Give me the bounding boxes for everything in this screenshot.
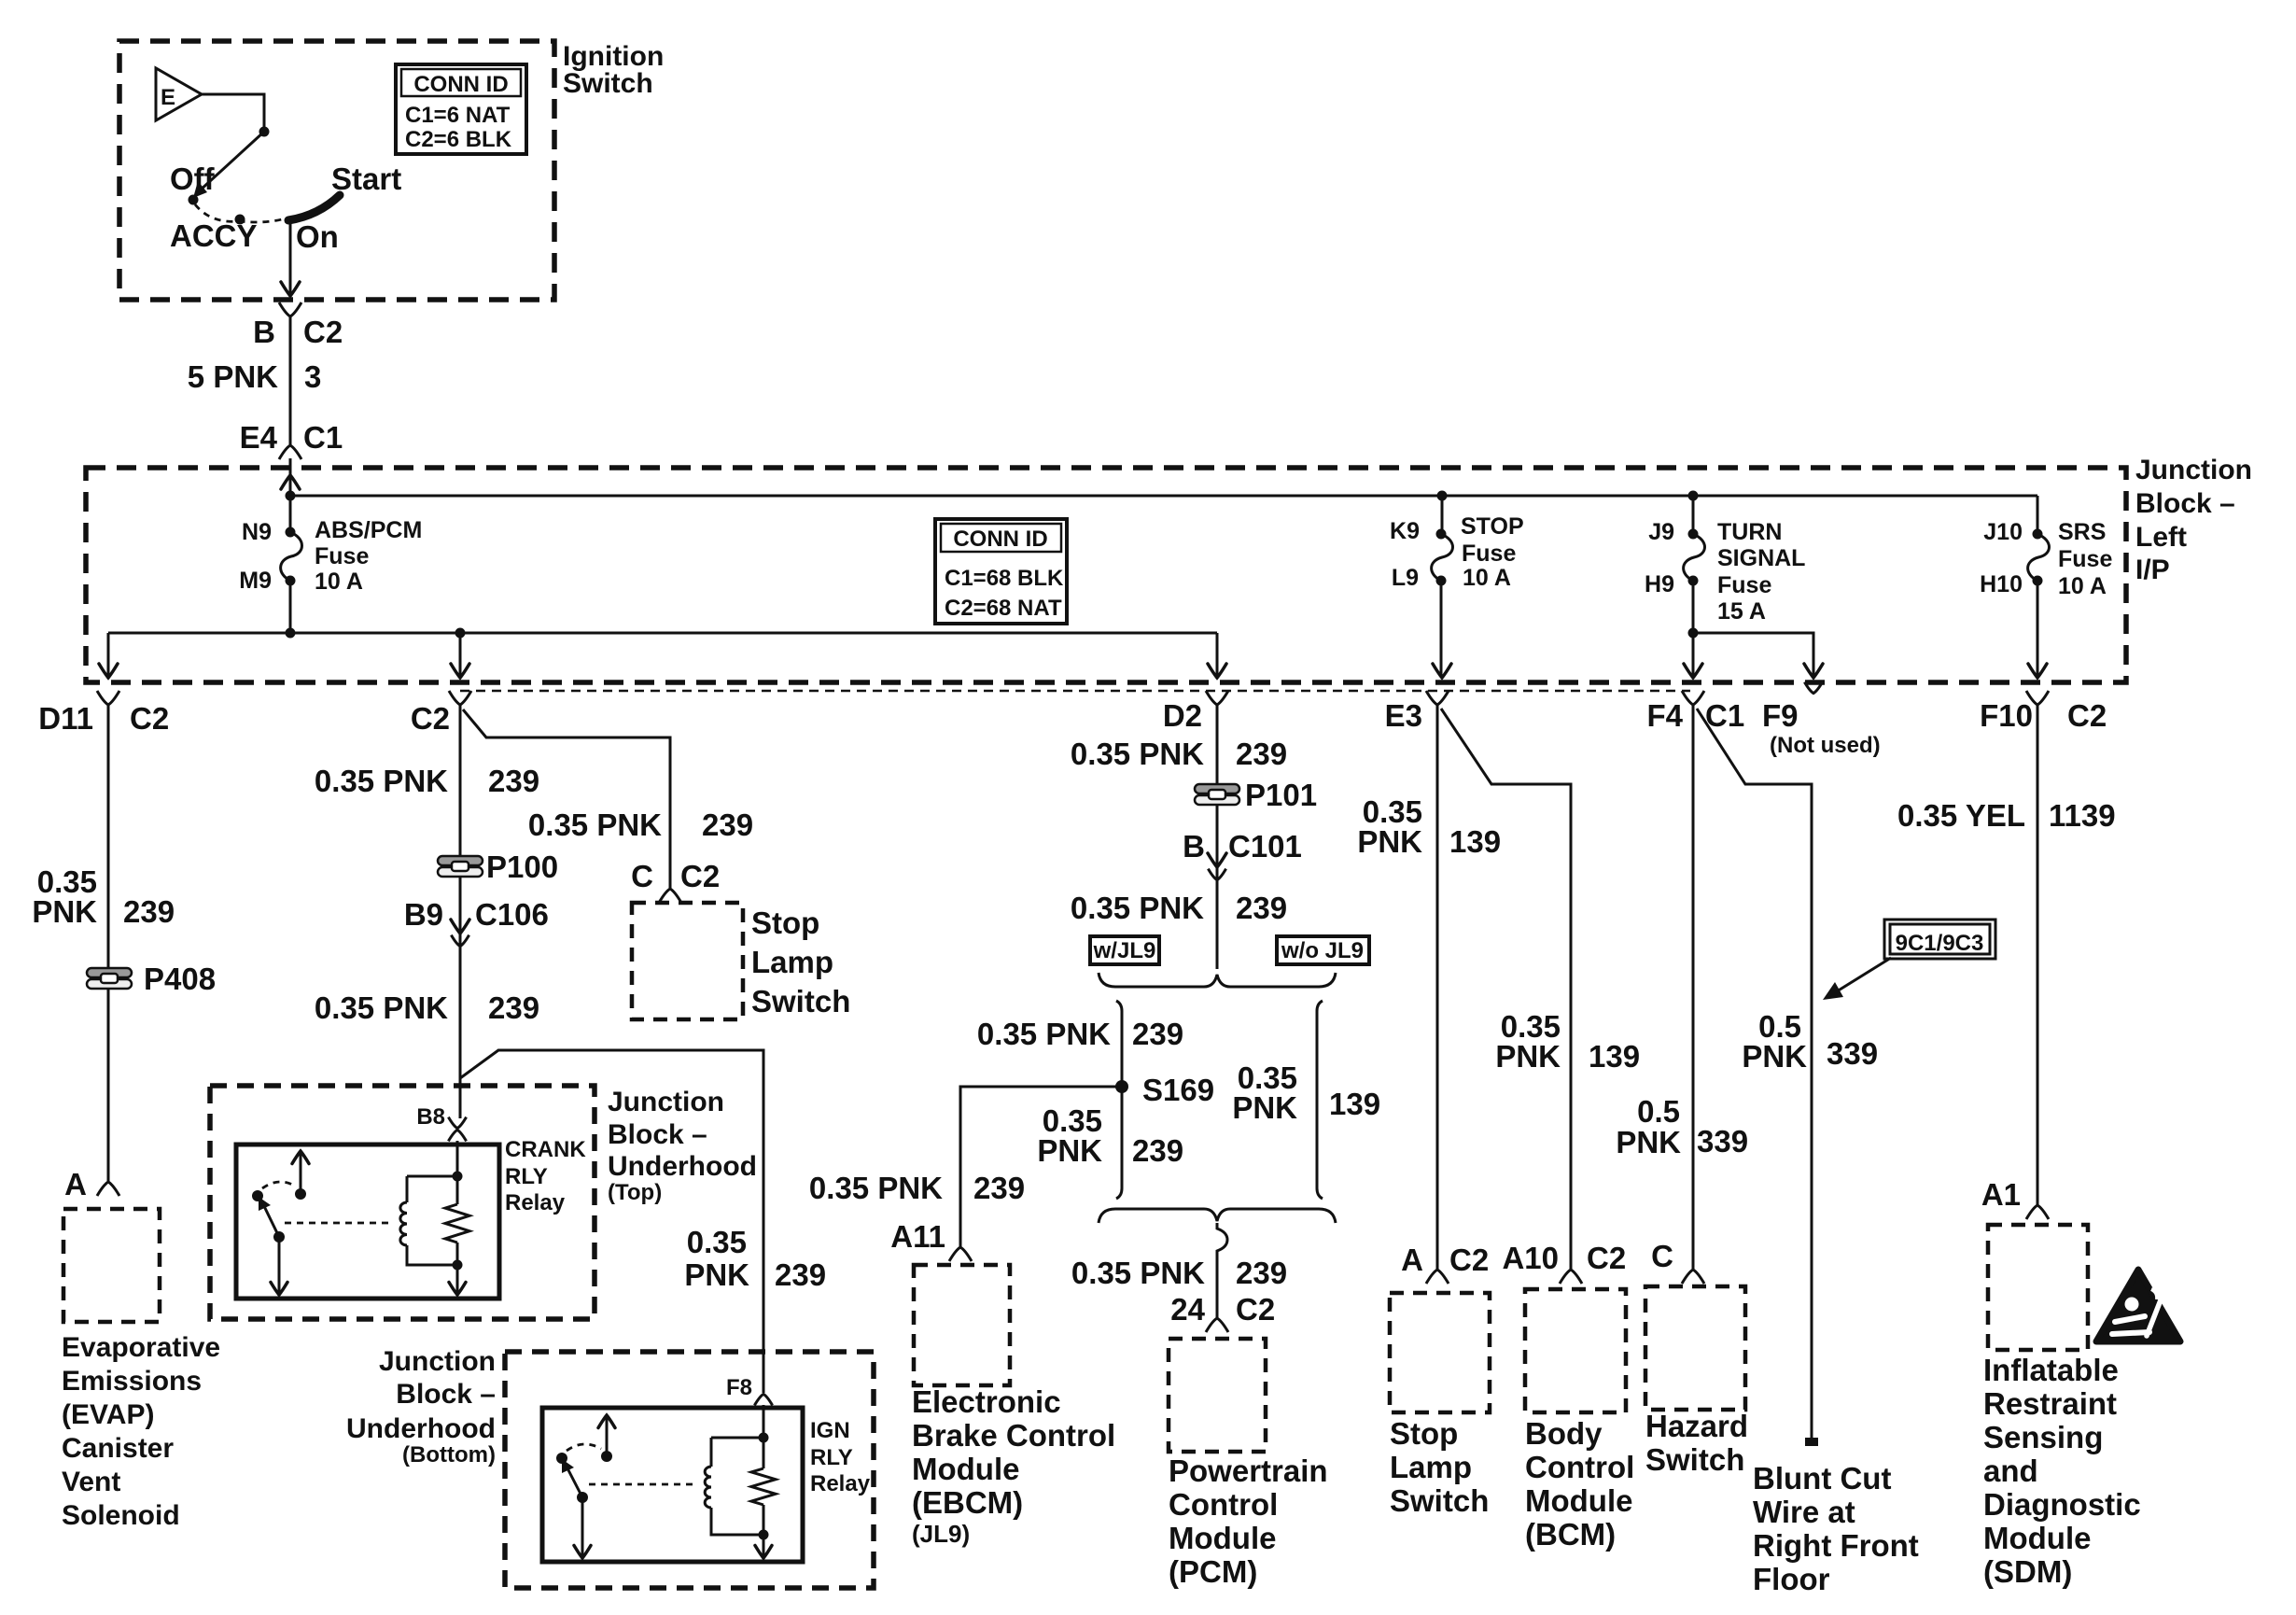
electronic brake control module box [914,1265,1010,1385]
svg-text:Brake Control: Brake Control [912,1418,1115,1453]
crank relay: switch contacts [252,1190,263,1201]
svg-text:RLY: RLY [810,1445,853,1470]
wire: upper feed bus [290,495,2037,498]
svg-text:STOP: STOP [1461,513,1524,540]
svg-text:I/P: I/P [2135,555,2170,585]
svg-text:Switch: Switch [1390,1483,1489,1518]
CONN ID table (junction block) [935,519,1067,624]
svg-text:A1: A1 [1981,1177,2021,1212]
svg-text:339: 339 [1697,1124,1748,1159]
svg-text:239: 239 [1236,737,1287,771]
svg-text:F10: F10 [1980,698,2033,733]
svg-text:Module: Module [912,1452,1019,1486]
svg-text:(Not used): (Not used) [1770,733,1881,758]
svg-text:Block –: Block – [608,1119,707,1150]
connector F9 (not used) [1804,682,1822,694]
svg-text:Body: Body [1525,1416,1603,1451]
svg-text:Emissions: Emissions [62,1366,202,1397]
IGN RLY relay box [542,1408,803,1562]
svg-text:Hazard: Hazard [1645,1409,1748,1443]
svg-text:(Top): (Top) [608,1180,662,1205]
wire 5 PNK 3 [289,316,292,446]
svg-text:Switch: Switch [1645,1442,1744,1477]
svg-text:9C1/9C3: 9C1/9C3 [1896,931,1984,956]
svg-text:(EBCM): (EBCM) [912,1485,1023,1520]
wire C2 down toward B8, 0.35 PNK 239 [457,705,460,1145]
crank relay: coil feed from B8 [407,1141,457,1176]
svg-text:Sensing: Sensing [1983,1420,2103,1454]
svg-text:B: B [253,315,275,349]
ign relay: coil feed from F8 [711,1405,763,1438]
svg-text:PNK: PNK [1357,824,1422,859]
svg-text:C1: C1 [1705,698,1744,733]
wire F4/C1 blunt cut branch, 0.5 PNK 339 [1697,709,1812,1438]
svg-text:Junction: Junction [2135,455,2252,485]
connector D11 / C2 [97,691,119,705]
svg-text:SIGNAL: SIGNAL [1717,545,1805,571]
svg-text:10 A: 10 A [315,569,363,595]
svg-text:B8: B8 [416,1104,445,1130]
svg-text:PNK: PNK [1037,1133,1102,1168]
svg-text:Electronic: Electronic [912,1384,1061,1419]
svg-text:Blunt Cut: Blunt Cut [1753,1461,1891,1496]
ign relay: resistor [763,1438,765,1468]
node Off [189,195,199,205]
junction block - underhood (top) box [210,1086,595,1319]
svg-text:N9: N9 [242,519,272,545]
svg-text:H10: H10 [1980,571,2023,597]
wire drop to C2 [459,633,462,675]
svg-text:Vent: Vent [62,1467,120,1497]
option tag 9C1/9C3 [1884,920,1995,959]
svg-text:K9: K9 [1390,518,1420,544]
svg-text:139: 139 [1329,1087,1380,1121]
svg-text:PNK: PNK [684,1257,749,1292]
svg-text:0.5: 0.5 [1637,1094,1680,1129]
wire from E to switch pivot [202,94,264,132]
wire drop to F4 [1692,633,1695,675]
junction block - underhood (bottom) box [505,1352,874,1588]
svg-text:10 A: 10 A [2058,573,2107,599]
svg-text:Fuse: Fuse [1462,541,1516,567]
option tag w/JL9 [1090,936,1159,964]
svg-text:(EVAP): (EVAP) [62,1399,154,1430]
svg-text:Relay: Relay [505,1190,566,1215]
wire: lower distribution bus [108,632,1217,635]
splice S169 [1115,1080,1128,1093]
svg-text:0.35 PNK: 0.35 PNK [809,1171,943,1205]
svg-text:D2: D2 [1163,698,1202,733]
svg-text:C2=6 BLK: C2=6 BLK [405,127,512,152]
svg-text:Relay: Relay [810,1471,871,1496]
battery feed symbol E [156,68,202,120]
wire On down to connector [289,218,292,294]
ign relay: switch contacts [556,1453,567,1464]
svg-text:C2: C2 [411,701,450,736]
svg-text:Lamp: Lamp [1390,1450,1472,1484]
svg-text:F8: F8 [726,1375,752,1400]
svg-text:B: B [1183,829,1205,864]
entry arrow from ignition switch [281,475,300,489]
wire branch to IGN RLY via F8, 0.35 PNK 239 [460,1050,763,1393]
svg-text:E3: E3 [1385,698,1422,733]
svg-text:Solenoid: Solenoid [62,1500,180,1531]
svg-text:Stop: Stop [751,906,819,940]
svg-text:C2: C2 [303,315,343,349]
svg-text:Module: Module [1169,1521,1276,1555]
svg-text:Fuse: Fuse [2058,546,2112,572]
svg-text:PNK: PNK [1495,1039,1561,1074]
svg-text:Underhood: Underhood [346,1413,496,1444]
svg-text:239: 239 [488,990,539,1025]
hazard switch box [1645,1286,1745,1410]
svg-text:w/o JL9: w/o JL9 [1281,938,1364,963]
option split brace (top) [1099,973,1336,987]
svg-text:C: C [1651,1239,1673,1273]
svg-text:Off: Off [170,161,216,196]
svg-text:C2: C2 [1236,1292,1275,1327]
ign relay: coil [710,1438,713,1467]
svg-text:239: 239 [1132,1017,1183,1051]
body control module box [1525,1289,1626,1412]
svg-text:P101: P101 [1245,778,1317,812]
svg-text:Lamp: Lamp [751,945,833,979]
svg-text:Switch: Switch [563,68,653,99]
svg-text:139: 139 [1589,1039,1640,1074]
svg-text:Fuse: Fuse [315,543,369,569]
svg-text:and: and [1983,1453,2038,1488]
svg-text:239: 239 [488,764,539,798]
svg-text:Diagnostic: Diagnostic [1983,1487,2141,1522]
inflatable restraint SDM box [1988,1225,2088,1350]
svg-text:B9: B9 [404,897,443,932]
svg-text:239: 239 [775,1257,826,1292]
svg-text:C101: C101 [1228,829,1302,864]
svg-text:(Bottom): (Bottom) [402,1442,496,1468]
svg-text:D11: D11 [38,701,93,736]
svg-text:C2=68 NAT: C2=68 NAT [945,596,1062,621]
svg-text:E: E [161,85,175,110]
svg-text:Underhood: Underhood [608,1151,757,1182]
svg-text:SRS: SRS [2058,519,2106,545]
wire F4 to hazard switch, 0.5 PNK 339 [1692,705,1695,1271]
svg-text:Junction: Junction [379,1346,496,1377]
wire to PCM, 0.35 PNK 239 [1217,1223,1227,1318]
svg-text:239: 239 [123,894,175,929]
svg-text:C106: C106 [475,897,549,932]
node: feed bus junction [286,491,296,501]
svg-text:(PCM): (PCM) [1169,1554,1257,1589]
svg-text:339: 339 [1827,1036,1878,1071]
crank relay: travel arc (dashed) [262,1182,296,1188]
evaporative emissions canister vent solenoid box [63,1209,160,1322]
wire D2 down, 0.35 PNK 239 [1216,705,1219,969]
wire drop to D2 [1216,633,1219,675]
junction block - left I/P box [86,468,2126,682]
wire F10 to SDM, 0.35 YEL 1139 [2037,705,2039,1206]
in-line connector P408 [87,968,132,989]
w/o JL9 branch wire, 0.35 PNK 139 [1317,1001,1323,1199]
svg-text:C2: C2 [130,701,169,736]
thick arc On to Start [288,195,340,220]
svg-text:15 A: 15 A [1717,598,1766,625]
svg-text:PNK: PNK [1232,1090,1297,1125]
svg-text:0.35: 0.35 [687,1225,747,1259]
svg-text:PNK: PNK [1616,1125,1681,1159]
svg-text:E4: E4 [240,420,278,455]
crank relay: actuation link (dashed) [285,1222,392,1225]
crank relay: coil [406,1176,409,1202]
svg-text:C1: C1 [303,420,343,455]
svg-text:C2: C2 [680,859,720,893]
svg-text:(SDM): (SDM) [1983,1554,2072,1589]
svg-text:Control: Control [1525,1450,1634,1484]
svg-text:F4: F4 [1646,698,1683,733]
svg-text:0.35 YEL: 0.35 YEL [1897,798,2025,833]
svg-text:C2: C2 [1587,1241,1626,1275]
wire E3 to stop lamp switch, 0.35 PNK 139 [1436,705,1439,1271]
CRANK RLY relay box [236,1145,499,1299]
svg-text:Block –: Block – [2135,488,2235,519]
svg-text:w/JL9: w/JL9 [1093,938,1156,963]
svg-text:239: 239 [1132,1133,1183,1168]
svg-text:PNK: PNK [1742,1039,1807,1074]
svg-text:239: 239 [1236,891,1287,925]
svg-text:Block –: Block – [396,1379,496,1410]
connector B / C2 at ignition switch [279,302,301,316]
svg-text:Evaporative: Evaporative [62,1332,220,1363]
svg-text:Right Front: Right Front [1753,1528,1919,1563]
svg-text:PNK: PNK [32,894,97,929]
ign relay: actuation link (dashed) [589,1483,696,1486]
svg-text:ABS/PCM: ABS/PCM [315,517,422,543]
wire D11 to EVAP solenoid, 0.35 PNK 239 [107,705,110,1183]
crank relay: resistor [456,1176,459,1204]
SRS fuse 10A (J10-H10) [2037,496,2039,534]
svg-text:139: 139 [1449,824,1501,859]
connector D2 [1206,691,1228,705]
stop lamp switch box (underhood) [632,903,743,1019]
svg-text:Restraint: Restraint [1983,1386,2117,1421]
svg-text:5 PNK: 5 PNK [188,359,278,394]
svg-text:CONN ID: CONN ID [413,72,508,97]
wire fuse to lower bus [289,581,292,633]
svg-text:C2: C2 [2067,698,2107,733]
svg-text:Start: Start [331,161,401,196]
node ACCY [235,215,245,225]
svg-text:Fuse: Fuse [1717,572,1771,598]
option tag w/o JL9 [1277,936,1369,964]
svg-text:Control: Control [1169,1487,1278,1522]
svg-text:(JL9): (JL9) [912,1520,970,1548]
STOP fuse 10A (K9-L9) [1437,491,1448,501]
svg-text:3: 3 [304,359,321,394]
svg-text:C1=6 NAT: C1=6 NAT [405,103,511,128]
ignition switch box [119,41,554,300]
svg-text:Left: Left [2135,522,2187,553]
svg-text:Wire at: Wire at [1753,1495,1855,1529]
svg-text:Module: Module [1983,1521,2091,1555]
svg-text:239: 239 [1236,1256,1287,1290]
crank relay: coil return arrow [453,1260,463,1271]
svg-text:Inflatable: Inflatable [1983,1353,2119,1387]
svg-text:S169: S169 [1142,1073,1214,1107]
switch travel arc Off-ACCY-On (dashed) [195,204,286,222]
wire branch C2 to stop lamp switch, 0.35 PNK 239 [463,709,670,890]
svg-text:0.35 PNK: 0.35 PNK [1071,1256,1205,1290]
ignition switch arm (arrow to Off) [199,132,264,191]
svg-text:Floor: Floor [1753,1562,1830,1596]
svg-text:Stop: Stop [1390,1416,1458,1451]
in-line connector P100 [438,856,483,877]
node on bus for C2 drop [455,628,466,639]
svg-text:ACCY: ACCY [170,218,258,253]
ign relay: travel arc (dashed) [567,1444,601,1451]
ABS/PCM fuse 10A (N9-M9) [289,496,292,532]
svg-text:On: On [296,219,339,254]
ign relay: coil return arrow [759,1530,769,1540]
connector C2 (column 2) [449,691,471,705]
svg-text:0.35 PNK: 0.35 PNK [315,990,448,1025]
svg-text:Switch: Switch [751,984,850,1018]
svg-text:J9: J9 [1648,519,1674,545]
wire branch to F9 [1693,633,1813,675]
svg-text:Powertrain: Powertrain [1169,1453,1328,1488]
in-line connector P101 [1195,784,1239,805]
svg-text:A11: A11 [890,1219,945,1254]
connector F4 / C1 [1682,691,1704,705]
svg-text:Canister: Canister [62,1433,174,1464]
svg-text:0.35 PNK: 0.35 PNK [528,807,662,842]
svg-text:Junction: Junction [608,1087,724,1117]
wire S169 to EBCM A11, 0.35 PNK 239 [960,1087,1122,1248]
svg-text:239: 239 [702,807,753,842]
svg-text:0.35 PNK: 0.35 PNK [1071,737,1204,771]
svg-text:A: A [1401,1243,1423,1277]
CONN ID table (ignition switch) [396,64,526,154]
svg-text:0.35 PNK: 0.35 PNK [315,764,448,798]
svg-text:J10: J10 [1983,519,2023,545]
svg-text:CRANK: CRANK [505,1137,586,1162]
svg-text:TURN: TURN [1717,519,1782,545]
connector F10 / C2 [2026,691,2049,705]
svg-text:A10: A10 [1502,1241,1559,1275]
svg-text:F9: F9 [1762,698,1799,733]
SRS caution symbol [2096,1270,2180,1341]
svg-text:IGN: IGN [810,1418,850,1443]
svg-text:L9: L9 [1392,565,1419,591]
option merge brace (bottom) [1099,1209,1336,1223]
svg-text:C: C [631,859,653,893]
TURN SIGNAL fuse 15A (J9-H9) [1688,491,1699,501]
svg-text:C1=68 BLK: C1=68 BLK [945,566,1064,591]
stop lamp switch box (I/P) [1390,1293,1490,1412]
svg-text:1139: 1139 [2049,798,2116,833]
wire E3 branch to BCM, 0.35 PNK 139 [1441,709,1571,1271]
svg-text:239: 239 [973,1171,1025,1205]
svg-text:P408: P408 [144,962,216,996]
svg-text:(BCM): (BCM) [1525,1517,1616,1552]
svg-text:Module: Module [1525,1483,1632,1518]
svg-text:P100: P100 [486,850,558,884]
svg-text:0.35 PNK: 0.35 PNK [977,1017,1111,1051]
arrow from 9C1/9C3 tag to wire [1837,958,1891,991]
svg-text:CONN ID: CONN ID [953,527,1047,552]
wire drop to D11 [107,633,110,675]
connector E4 / C1 at junction block [279,445,301,459]
svg-text:RLY: RLY [505,1164,548,1189]
svg-text:0.35 PNK: 0.35 PNK [1071,891,1204,925]
wire into junction block [289,458,292,496]
I/P harness boundary (thin dashed) [460,690,1690,693]
svg-text:C2: C2 [1449,1243,1489,1277]
svg-text:24: 24 [1170,1292,1205,1327]
connector E3 [1426,691,1449,705]
svg-text:M9: M9 [239,568,272,594]
svg-text:H9: H9 [1645,571,1674,597]
powertrain control module box [1169,1339,1266,1452]
svg-text:10 A: 10 A [1463,565,1511,591]
w/JL9 branch wire, 0.35 PNK 239 [1116,1001,1122,1199]
svg-text:A: A [64,1167,87,1201]
